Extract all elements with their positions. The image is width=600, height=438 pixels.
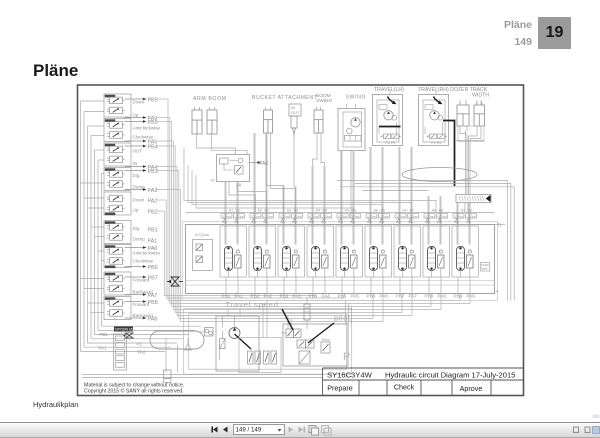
label Backward / port PA8 bbox=[125, 313, 158, 322]
valve bank section 2 bottom port stubs bbox=[255, 268, 267, 294]
valve bank section 6 spool bbox=[370, 247, 387, 271]
port labels PB4 PA4 bbox=[309, 294, 331, 299]
wire bottom drain lines bbox=[82, 375, 323, 378]
port labels PB7 PA7 bbox=[396, 294, 418, 299]
wire dozer and track lines to right bus bbox=[458, 100, 484, 142]
grouping ellipse around travel lines bbox=[402, 168, 477, 182]
pump regulator valve pair 1 bbox=[248, 351, 261, 364]
valve bank section 4 port labels A4 B4 bbox=[316, 209, 328, 213]
cylinder track width bbox=[474, 102, 485, 126]
label TRAVEL(RH) DOZER TRACK WIDTH bbox=[418, 87, 489, 99]
label Clockwise / port PB6 bbox=[125, 259, 158, 271]
valve bank section 3 bottom port stubs bbox=[284, 268, 296, 294]
port labels PB5 PA5 bbox=[338, 294, 360, 299]
page title Plaene bbox=[33, 61, 78, 81]
label OUT / port PB4 bbox=[125, 144, 158, 153]
swing motor block bbox=[338, 104, 365, 151]
hydraulic breaker symbol bbox=[291, 116, 297, 137]
label Anticlockwise / port PA6 bbox=[125, 246, 161, 256]
pilot valve PB2 bbox=[107, 205, 125, 212]
valve bank section 4 body bbox=[307, 226, 334, 277]
valve bank section 7 port relief valves bbox=[395, 213, 419, 227]
option check valve bowtie bbox=[123, 333, 133, 338]
wire bus pilot-to-bank vertical drop lines bbox=[157, 99, 181, 322]
wire bus bottom-left horizontal collectors bbox=[81, 326, 202, 351]
port labels PB6 PA6 bbox=[367, 294, 389, 299]
pilot valve group BUCKET (PB9/PA9) bbox=[104, 94, 131, 117]
wire bus thick hydraulic supply lines vertical bbox=[226, 133, 470, 245]
port labels PB8 PA8 bbox=[425, 294, 447, 299]
breaker attachment IN/OUT box bbox=[289, 104, 301, 116]
hydraulic tank (reservoir) bbox=[150, 331, 204, 349]
port labels PB2 PA2 bbox=[251, 294, 273, 299]
toolbar right side icons bbox=[574, 427, 591, 433]
wire ladder horizontal pilot lines to bank ports bbox=[164, 294, 470, 322]
label Down / port PB9 bbox=[125, 97, 158, 104]
pilot valve group SWING (PA6/PB6) bbox=[104, 245, 131, 268]
pilot valve group aux (PA2/PB2) bbox=[104, 192, 131, 215]
pilot valve PA8 bbox=[107, 310, 125, 317]
valve bank section 9 body bbox=[452, 226, 479, 277]
valve bank section 3 port labels A3 B3 bbox=[287, 209, 299, 213]
valve bank section 5 port labels A5 B5 bbox=[345, 209, 357, 213]
valve bank section 2 port labels A2 B2 bbox=[258, 209, 270, 213]
valve bank section 8 bottom port stubs bbox=[429, 268, 441, 294]
pilot valve group ARM SWING (PB5/PA5) bbox=[104, 119, 131, 142]
travel speed solenoid valve bbox=[281, 329, 301, 338]
label IN / port PA4 bbox=[125, 161, 158, 171]
pilot valve PA6 bbox=[107, 248, 125, 255]
pilot valve group ARM (PB1/PA1) bbox=[104, 221, 131, 244]
wire bus left field horizontals to bank top ports bbox=[184, 160, 436, 213]
port PA8 arrow from holding valve bbox=[250, 161, 269, 167]
travel motor LH direction arrow bbox=[388, 97, 395, 104]
page header number 149 bbox=[466, 36, 532, 48]
valve bank section 6 port labels A6 B6 bbox=[374, 209, 386, 213]
title block outline bbox=[323, 368, 524, 396]
tank drain box bbox=[164, 370, 172, 383]
pilot valve group TRAVEL (PB8/PA8) bbox=[104, 297, 131, 320]
valve bank section 8 port labels A8 B8 bbox=[432, 209, 444, 213]
label Forward / port PB7 bbox=[125, 275, 158, 282]
port labels PB3 PA3 bbox=[280, 294, 302, 299]
travel motor LH bold shift line bbox=[379, 126, 401, 128]
valve bank section 8 port relief valves bbox=[424, 213, 448, 227]
valve bank section 8 body bbox=[423, 226, 450, 277]
main control valve bank outline bbox=[183, 213, 498, 301]
P.LOW pilot box bbox=[481, 263, 490, 272]
pilot valve group BOOM (PB3/PA3) bbox=[104, 168, 131, 191]
cylinder boom swing bbox=[314, 107, 323, 133]
valve bank section 7 body bbox=[394, 226, 421, 277]
wire pilot enclosure feed lines bbox=[288, 297, 352, 329]
cylinder arm (left) bbox=[192, 107, 202, 134]
pump assembly enclosure bbox=[216, 316, 259, 371]
cylinder bucket bbox=[264, 107, 273, 133]
pilot shutoff valve bbox=[297, 340, 314, 348]
bottom toolbar bbox=[0, 422, 600, 438]
pilot valve PA3 bbox=[107, 181, 125, 188]
label Dump / port PA3 bbox=[125, 185, 158, 194]
valve bank section 4 port relief valves bbox=[308, 213, 332, 227]
pilot valve PA4 bbox=[107, 156, 125, 163]
pressure sensor box with hatch bbox=[456, 195, 491, 203]
valve bank section 7 bottom port stubs bbox=[400, 268, 412, 294]
valve bank section 7 port labels A7 B7 bbox=[403, 209, 415, 213]
valve bank section 9 port labels A9 B9 bbox=[461, 209, 473, 213]
label Clockwise / port PA5 bbox=[125, 135, 158, 146]
valve bank section 2 spool bbox=[254, 247, 271, 271]
pilot valve PB9 bbox=[107, 97, 125, 104]
valve bank section 1 bottom port stubs bbox=[226, 268, 238, 294]
valve bank section 1 port labels A1 B1 bbox=[229, 209, 241, 213]
check valve bowtie symbol bbox=[167, 277, 183, 286]
wire sensor box feed lines bundle bbox=[455, 126, 484, 213]
toolbar previous-view icon bbox=[309, 426, 319, 436]
valve bank section 2 body bbox=[249, 226, 276, 277]
valve bank section 9 bottom port stubs bbox=[458, 268, 470, 294]
valve bank section 6 port relief valves bbox=[366, 213, 390, 227]
option valve stack bbox=[114, 334, 127, 370]
label Dig / port PB3 bbox=[125, 169, 158, 178]
toolbar previous-page button bbox=[223, 427, 228, 433]
valve bank section 6 bottom port stubs bbox=[371, 268, 383, 294]
valve bank section 9 port relief valves bbox=[453, 213, 477, 227]
valve bank section 1 spool bbox=[225, 247, 242, 271]
label Dig / port PB1 bbox=[133, 226, 158, 233]
valve bank section 5 port relief valves bbox=[337, 213, 361, 227]
pilot valve PA2 bbox=[107, 195, 125, 202]
pilot valve PB6 bbox=[107, 258, 125, 265]
valve bank section 7 spool bbox=[399, 247, 416, 271]
port labels PB9 PA9 bbox=[454, 294, 476, 299]
pilot valve PB3 bbox=[107, 171, 125, 178]
bank internal horizontal boundary lines bbox=[186, 281, 494, 286]
pilot valve PB7 bbox=[107, 275, 125, 282]
label Down / port PA2 bbox=[133, 198, 158, 205]
wire pump top connections bbox=[198, 316, 235, 360]
pilot relief valve 35bar bbox=[321, 338, 331, 353]
wire boom swing cylinder drops bbox=[313, 133, 325, 166]
main pump circle bbox=[229, 328, 240, 339]
page number box 19 bbox=[538, 17, 571, 49]
valve bank section 4 spool bbox=[312, 247, 329, 271]
toolbar page input box bbox=[234, 425, 285, 435]
travel motor RH bold pilot line to junction bbox=[443, 121, 455, 187]
valve bank section 5 body bbox=[336, 226, 363, 277]
page header label Plaene bbox=[466, 19, 532, 31]
pilot filter bbox=[299, 351, 310, 364]
toolbar next-page button disabled bbox=[289, 427, 294, 433]
option valve labels PB1 PA1 P1 PA2 bbox=[99, 332, 147, 355]
black strip SY380 under group 7 bbox=[105, 266, 116, 269]
valve bank section 5 spool bbox=[341, 247, 358, 271]
accumulator capsule bbox=[304, 304, 310, 329]
valve bank section 3 body bbox=[278, 226, 305, 277]
pilot valve PA1 bbox=[107, 234, 125, 241]
black strip under group 5 bbox=[105, 213, 116, 216]
pilot valve PA9 bbox=[107, 107, 125, 114]
OPTION UD label box bbox=[114, 327, 133, 332]
toolbar first-page button bbox=[211, 427, 217, 433]
toolbar last-page button disabled bbox=[299, 427, 306, 433]
pilot valve PA5 bbox=[107, 132, 125, 139]
valve bank inlet section with relief valves bbox=[193, 233, 213, 271]
travel motor LH block bbox=[373, 91, 403, 146]
travel motor RH block bbox=[419, 91, 449, 146]
valve bank section 9 spool bbox=[457, 247, 474, 271]
pilot valve PB5 bbox=[107, 122, 125, 129]
label Dump / port PA1 bbox=[133, 237, 158, 245]
valve bank section 8 spool bbox=[428, 247, 445, 271]
pump regulator valve pair 2 enclosure bbox=[239, 338, 281, 373]
pilot valve group TRAVEL (PB7/PA7) bbox=[104, 272, 131, 295]
bottom pump assembly outer enclosures bbox=[184, 309, 352, 375]
wire arm cylinder drop lines bbox=[184, 133, 351, 218]
toolbar next-view icon bbox=[322, 426, 332, 436]
wire bus left vertical return lines bbox=[81, 101, 105, 351]
valve bank section 3 spool bbox=[283, 247, 300, 271]
valve bank section 1 port relief valves bbox=[221, 213, 245, 227]
toolbar input dropdown caret bbox=[278, 429, 282, 432]
label BOOM SWING bbox=[316, 93, 333, 104]
valve bank section 2 port relief valves bbox=[250, 213, 274, 227]
travel motor RH direction arrow bbox=[434, 97, 441, 104]
pilot valve PA7 bbox=[107, 285, 125, 292]
cylinder dozer bbox=[457, 102, 469, 126]
bottom caption Hydraulikplan bbox=[33, 400, 78, 409]
valve bank section 3 port relief valves bbox=[279, 213, 303, 227]
drawing frame border bbox=[78, 85, 524, 396]
bold pointer pilot bbox=[308, 323, 334, 343]
pilot gear pump box bbox=[205, 328, 214, 337]
wire field horizontal return lines right side bbox=[337, 181, 514, 301]
label Up / port PA9 bbox=[125, 113, 158, 122]
pump swash bold control line bbox=[235, 334, 252, 349]
wire pump enclosure feed verticals bbox=[228, 301, 267, 338]
pilot valve PB1 bbox=[107, 224, 125, 231]
label Up / port PB2 bbox=[133, 208, 158, 216]
pilot valve PB8 bbox=[107, 300, 125, 307]
pilot control enclosure bbox=[283, 324, 348, 366]
port labels PB1 PA1 bbox=[222, 294, 244, 299]
valve bank section 1 body bbox=[220, 226, 247, 277]
bold pointer travel speed bbox=[282, 309, 293, 330]
wire T1 stub bbox=[495, 224, 506, 226]
suction strainer filter bbox=[220, 339, 226, 349]
cylinder boom (right) bbox=[207, 107, 217, 134]
wire tank internal suction lines bbox=[166, 338, 192, 373]
wire holding valve to bank bbox=[229, 182, 267, 213]
label Anticlockwise / port PB5 bbox=[125, 120, 161, 131]
valve bank section 5 bottom port stubs bbox=[342, 268, 354, 294]
valve bank section 6 body bbox=[365, 226, 392, 277]
pilot valve PB4 bbox=[107, 146, 125, 153]
svg-text:149 / 149: 149 / 149 bbox=[236, 427, 262, 434]
valve bank section 4 bottom port stubs bbox=[313, 268, 325, 294]
label Backward / port PA7 bbox=[125, 290, 158, 299]
label Forward / port PB8 bbox=[125, 300, 158, 307]
pilot valve group ATTACHMENT (PB4/PA4) bbox=[104, 143, 131, 166]
boom holding valve block A8 bbox=[211, 155, 250, 188]
copyright notice bbox=[84, 383, 184, 395]
